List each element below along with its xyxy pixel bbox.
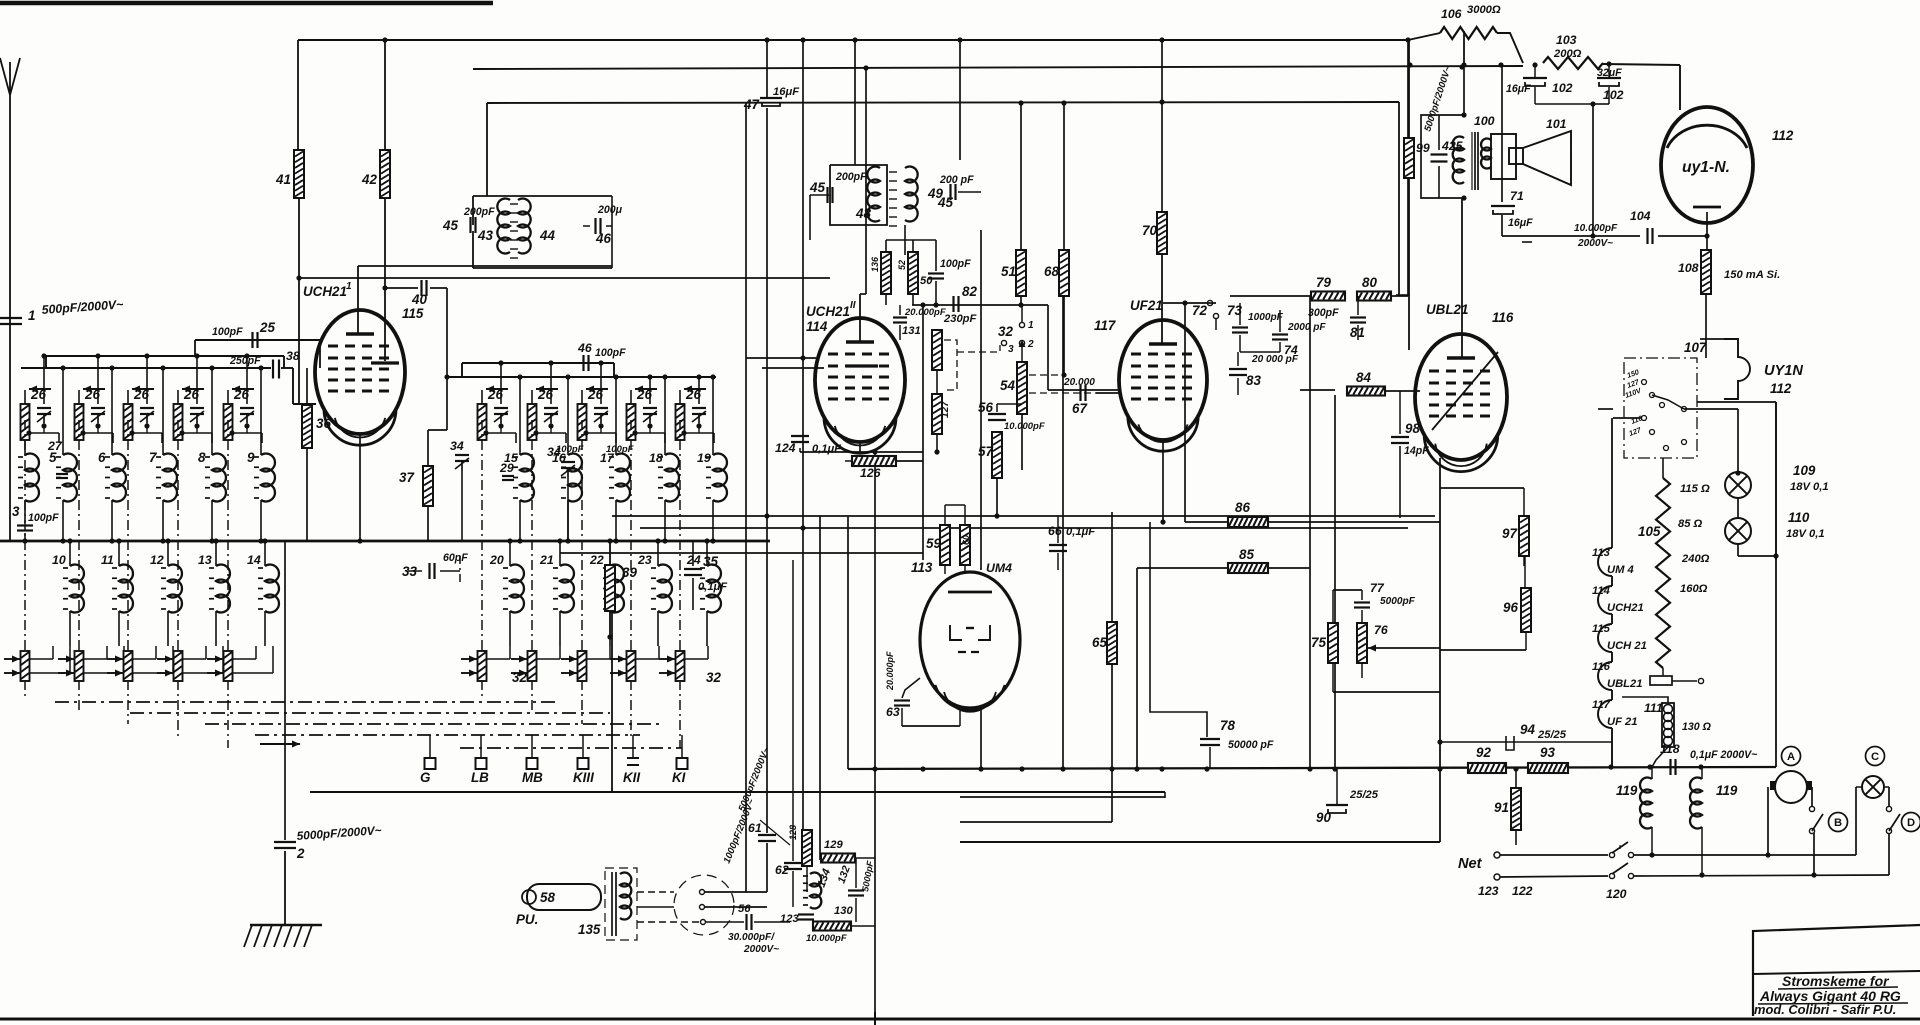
svg-text:46: 46 — [577, 341, 592, 355]
svg-text:18V 0,1: 18V 0,1 — [1786, 528, 1825, 540]
svg-text:130 Ω: 130 Ω — [1682, 721, 1712, 733]
svg-text:100pF: 100pF — [28, 512, 59, 524]
svg-text:KII: KII — [623, 770, 640, 785]
svg-text:9: 9 — [247, 450, 255, 465]
svg-text:UCH 21: UCH 21 — [1607, 640, 1647, 652]
svg-text:3: 3 — [1008, 344, 1014, 355]
svg-text:32μF: 32μF — [1597, 67, 1622, 79]
svg-text:Net: Net — [1458, 856, 1483, 872]
svg-text:106: 106 — [1441, 7, 1462, 21]
svg-text:UCH21: UCH21 — [1607, 602, 1644, 614]
svg-text:3: 3 — [12, 504, 20, 519]
svg-text:19: 19 — [697, 451, 711, 465]
svg-text:B: B — [1834, 817, 1842, 829]
svg-text:48: 48 — [855, 206, 871, 221]
svg-text:52: 52 — [897, 260, 907, 270]
svg-text:0,1μF: 0,1μF — [698, 581, 728, 593]
svg-text:45: 45 — [442, 218, 458, 233]
svg-text:PU.: PU. — [516, 912, 538, 927]
svg-text:10.000pF: 10.000pF — [1004, 421, 1045, 432]
svg-text:UM4: UM4 — [986, 561, 1012, 575]
svg-text:114: 114 — [806, 319, 828, 334]
svg-text:100pF: 100pF — [606, 444, 634, 455]
svg-text:32: 32 — [706, 670, 721, 685]
svg-text:115: 115 — [1592, 623, 1611, 635]
svg-text:25/25: 25/25 — [1349, 789, 1379, 801]
svg-text:1: 1 — [346, 281, 352, 292]
svg-text:240Ω: 240Ω — [1681, 553, 1710, 565]
svg-text:54: 54 — [1000, 378, 1015, 393]
svg-text:2000V~: 2000V~ — [1577, 238, 1613, 249]
svg-text:UF 21: UF 21 — [1607, 716, 1637, 728]
svg-text:A: A — [1787, 751, 1795, 763]
svg-text:116: 116 — [1592, 661, 1611, 673]
svg-text:20.000: 20.000 — [1063, 377, 1095, 388]
svg-text:90: 90 — [1316, 810, 1331, 825]
svg-text:75: 75 — [1311, 635, 1326, 650]
svg-text:2: 2 — [1027, 339, 1034, 350]
svg-text:mod. Colibri - Safir P.U.: mod. Colibri - Safir P.U. — [1754, 1002, 1896, 1017]
svg-text:200pF: 200pF — [463, 206, 495, 218]
svg-text:UF21: UF21 — [1130, 298, 1163, 313]
svg-text:76: 76 — [1374, 623, 1388, 637]
svg-text:38: 38 — [286, 349, 300, 363]
svg-text:10.000pF: 10.000pF — [1574, 223, 1618, 234]
svg-text:70: 70 — [1142, 223, 1157, 238]
svg-text:100pF: 100pF — [212, 326, 243, 338]
svg-text:100pF: 100pF — [595, 347, 626, 359]
svg-text:UCH21: UCH21 — [806, 304, 850, 319]
svg-text:85 Ω: 85 Ω — [1678, 518, 1703, 530]
svg-text:123: 123 — [780, 913, 799, 925]
svg-text:0,1μF: 0,1μF — [812, 443, 842, 455]
svg-text:2000V~: 2000V~ — [743, 944, 779, 955]
svg-text:101: 101 — [1546, 117, 1567, 131]
svg-text:112: 112 — [1770, 381, 1792, 396]
svg-text:13: 13 — [198, 553, 212, 567]
svg-text:86: 86 — [1235, 500, 1250, 515]
svg-text:0,1μF: 0,1μF — [1066, 526, 1096, 538]
svg-text:25: 25 — [259, 320, 275, 335]
svg-text:107: 107 — [1684, 340, 1707, 355]
svg-text:2: 2 — [296, 846, 305, 861]
svg-text:131: 131 — [902, 325, 921, 337]
svg-text:78: 78 — [1220, 718, 1235, 733]
svg-text:150 mA Si.: 150 mA Si. — [1724, 269, 1780, 281]
svg-text:LB: LB — [471, 770, 489, 785]
svg-text:7: 7 — [149, 450, 157, 465]
svg-text:82: 82 — [962, 284, 977, 299]
svg-text:97: 97 — [1502, 526, 1517, 541]
svg-text:118: 118 — [1660, 742, 1680, 756]
svg-text:56: 56 — [978, 400, 993, 415]
svg-text:127: 127 — [940, 400, 951, 418]
svg-text:10.000pF: 10.000pF — [806, 933, 847, 944]
svg-text:63: 63 — [886, 705, 900, 719]
svg-text:100: 100 — [1474, 114, 1495, 128]
svg-text:20: 20 — [489, 553, 504, 567]
svg-text:110: 110 — [1788, 510, 1810, 525]
svg-text:uy1-N.: uy1-N. — [1682, 159, 1730, 176]
svg-text:77: 77 — [1370, 581, 1385, 595]
svg-text:II: II — [850, 300, 856, 311]
svg-text:UCH21: UCH21 — [303, 284, 347, 299]
svg-text:200 pF: 200 pF — [939, 174, 974, 186]
svg-text:2000 pF: 2000 pF — [1287, 322, 1326, 333]
svg-text:135: 135 — [578, 922, 601, 937]
svg-text:115 Ω: 115 Ω — [1680, 483, 1710, 495]
svg-text:300pF: 300pF — [1308, 307, 1339, 319]
svg-text:160Ω: 160Ω — [1680, 583, 1708, 595]
svg-text:UY1N: UY1N — [1764, 363, 1803, 379]
svg-text:102: 102 — [1552, 81, 1573, 95]
svg-text:32: 32 — [998, 324, 1013, 339]
svg-text:136: 136 — [870, 256, 880, 272]
svg-text:3000Ω: 3000Ω — [1467, 4, 1501, 16]
svg-text:119: 119 — [1616, 783, 1638, 798]
svg-text:113: 113 — [911, 560, 933, 575]
svg-text:61: 61 — [748, 821, 762, 835]
svg-text:71: 71 — [1510, 189, 1524, 203]
svg-text:92: 92 — [1476, 745, 1491, 760]
svg-text:99: 99 — [1416, 141, 1430, 155]
svg-text:85: 85 — [1239, 547, 1254, 562]
svg-text:MB: MB — [522, 770, 543, 785]
svg-text:129: 129 — [824, 839, 843, 851]
svg-text:50000 pF: 50000 pF — [1228, 739, 1274, 751]
svg-text:122: 122 — [1512, 884, 1533, 898]
svg-text:93: 93 — [1540, 745, 1555, 760]
svg-text:8: 8 — [198, 450, 206, 465]
svg-text:12: 12 — [150, 553, 164, 567]
svg-text:14: 14 — [247, 553, 261, 567]
svg-text:105: 105 — [1638, 524, 1661, 539]
svg-text:200Ω: 200Ω — [1553, 48, 1582, 60]
svg-text:115: 115 — [402, 306, 424, 321]
svg-text:200μ: 200μ — [597, 204, 623, 216]
svg-text:44: 44 — [539, 228, 555, 243]
svg-text:60: 60 — [961, 535, 971, 545]
svg-text:60pF: 60pF — [443, 552, 468, 564]
svg-text:37: 37 — [399, 470, 414, 485]
svg-text:30.000pF/: 30.000pF/ — [728, 932, 775, 943]
svg-text:100pF: 100pF — [940, 258, 971, 270]
svg-text:KI: KI — [672, 770, 686, 785]
svg-text:5000pF: 5000pF — [1380, 596, 1416, 607]
svg-text:56: 56 — [738, 903, 751, 915]
svg-text:Stromskeme for: Stromskeme for — [1782, 973, 1890, 989]
svg-text:91: 91 — [1494, 800, 1509, 815]
svg-text:111: 111 — [1644, 701, 1663, 715]
svg-text:80: 80 — [1362, 275, 1377, 290]
svg-text:G: G — [420, 770, 430, 785]
svg-text:36: 36 — [316, 416, 331, 431]
svg-text:27: 27 — [47, 439, 63, 453]
svg-text:45: 45 — [937, 195, 953, 210]
svg-text:117: 117 — [1094, 318, 1116, 333]
svg-text:6: 6 — [98, 450, 106, 465]
svg-text:79: 79 — [1316, 275, 1331, 290]
svg-text:21: 21 — [539, 553, 554, 567]
svg-text:51: 51 — [1001, 264, 1016, 279]
svg-text:1: 1 — [1028, 320, 1034, 331]
svg-text:20.000pF: 20.000pF — [885, 651, 895, 691]
svg-text:22: 22 — [589, 553, 604, 567]
svg-text:35: 35 — [703, 554, 718, 569]
svg-text:57: 57 — [978, 444, 993, 459]
svg-text:45: 45 — [809, 180, 825, 195]
svg-text:50: 50 — [920, 275, 933, 287]
svg-text:10: 10 — [52, 553, 66, 567]
svg-text:42: 42 — [361, 172, 377, 187]
svg-text:109: 109 — [1793, 463, 1816, 478]
svg-text:11: 11 — [101, 553, 114, 567]
svg-text:102: 102 — [1603, 88, 1624, 102]
svg-text:126: 126 — [860, 466, 881, 480]
svg-text:C: C — [1871, 751, 1879, 763]
svg-text:200pF: 200pF — [835, 171, 867, 183]
svg-text:39: 39 — [622, 565, 637, 580]
svg-text:128: 128 — [788, 825, 798, 840]
svg-text:58: 58 — [540, 890, 555, 905]
svg-text:68: 68 — [1044, 264, 1059, 279]
svg-text:29: 29 — [499, 461, 514, 475]
svg-text:46: 46 — [595, 231, 611, 246]
svg-text:100pF: 100pF — [556, 444, 584, 455]
svg-text:23: 23 — [637, 553, 652, 567]
svg-text:130: 130 — [834, 905, 853, 917]
svg-text:120: 120 — [1606, 887, 1627, 901]
svg-text:114: 114 — [1592, 585, 1611, 597]
svg-text:67: 67 — [1072, 401, 1087, 416]
svg-text:KIII: KIII — [573, 770, 594, 785]
svg-text:108: 108 — [1678, 261, 1699, 275]
svg-text:20 000 pF: 20 000 pF — [1251, 354, 1299, 365]
svg-text:32: 32 — [512, 670, 527, 685]
svg-text:104: 104 — [1630, 209, 1651, 223]
svg-text:72: 72 — [1192, 303, 1207, 318]
svg-text:116: 116 — [1492, 310, 1514, 325]
svg-text:96: 96 — [1503, 600, 1518, 615]
svg-text:40: 40 — [411, 292, 427, 307]
svg-text:UBL21: UBL21 — [1607, 678, 1642, 690]
svg-text:94: 94 — [1520, 722, 1535, 737]
svg-text:25/25: 25/25 — [1537, 729, 1567, 741]
svg-text:UM 4: UM 4 — [1607, 564, 1635, 576]
svg-text:117: 117 — [1592, 699, 1611, 711]
svg-text:103: 103 — [1556, 33, 1577, 47]
svg-text:83: 83 — [1246, 373, 1261, 388]
svg-text:66: 66 — [1048, 524, 1062, 538]
svg-text:16μF: 16μF — [1508, 217, 1533, 229]
svg-text:123: 123 — [1478, 884, 1499, 898]
svg-text:43: 43 — [477, 228, 493, 243]
svg-text:0,1μF 2000V~: 0,1μF 2000V~ — [1690, 749, 1757, 761]
svg-text:20.000pF: 20.000pF — [904, 307, 946, 318]
svg-text:124: 124 — [775, 441, 796, 455]
svg-text:18: 18 — [649, 451, 663, 465]
svg-text:119: 119 — [1716, 783, 1738, 798]
svg-text:1000pF: 1000pF — [1248, 312, 1284, 323]
svg-text:34: 34 — [450, 439, 464, 453]
svg-text:65: 65 — [1092, 635, 1107, 650]
svg-text:230pF: 230pF — [943, 313, 977, 325]
svg-text:16μF: 16μF — [1506, 83, 1531, 95]
svg-text:D: D — [1907, 817, 1915, 829]
svg-text:59: 59 — [926, 536, 941, 551]
svg-text:41: 41 — [275, 172, 291, 187]
svg-text:84: 84 — [1356, 370, 1371, 385]
svg-text:16μF: 16μF — [773, 86, 800, 98]
svg-text:112: 112 — [1772, 128, 1794, 143]
svg-text:1: 1 — [28, 308, 35, 323]
svg-text:113: 113 — [1592, 547, 1611, 559]
svg-text:18V 0,1: 18V 0,1 — [1790, 481, 1829, 493]
svg-text:62: 62 — [775, 863, 789, 877]
